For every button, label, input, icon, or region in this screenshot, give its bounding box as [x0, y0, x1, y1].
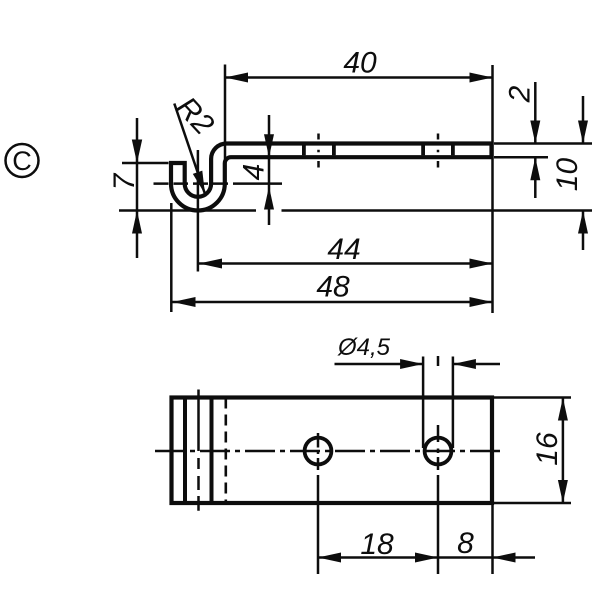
- svg-text:Ø4,5: Ø4,5: [337, 334, 391, 361]
- dimension D4,5: [335, 334, 501, 448]
- radius leader R2: [170, 91, 221, 194]
- svg-text:18: 18: [360, 528, 394, 561]
- hook part cross-section outline (side view): [171, 144, 492, 211]
- svg-text:2: 2: [504, 85, 537, 103]
- hidden edge line (dashed): [225, 398, 228, 504]
- svg-text:4: 4: [238, 164, 271, 181]
- hook bottom tangent / extension line: [119, 209, 256, 212]
- dimension 10: [551, 96, 588, 250]
- svg-text:8: 8: [457, 527, 474, 560]
- bend edge line 1: [183, 398, 187, 504]
- svg-text:7: 7: [108, 172, 141, 190]
- hook center line vertical (bottom view): [197, 390, 200, 511]
- dimension 40: [225, 47, 493, 314]
- dimension 16: [493, 398, 571, 504]
- dimension 48: [173, 271, 493, 308]
- hook arc vertical center line / extension for 44: [197, 150, 200, 272]
- dimension 2: [494, 82, 592, 198]
- bend edge line 2: [210, 398, 214, 504]
- dimension 7: [108, 118, 169, 258]
- hole 1 vertical center line: [317, 433, 320, 574]
- view label C (circled): [6, 144, 39, 177]
- hole 2: [425, 438, 452, 465]
- hole 2 edge ticks in side view: [421, 145, 425, 155]
- svg-text:40: 40: [343, 47, 377, 80]
- svg-text:16: 16: [531, 432, 564, 466]
- dimension 18 and 8: [318, 503, 535, 574]
- svg-text:44: 44: [327, 233, 360, 266]
- hole 2 vertical center line: [437, 356, 440, 574]
- extension line left edge down to 48 dim: [170, 203, 173, 312]
- svg-text:C: C: [12, 146, 32, 176]
- svg-text:48: 48: [316, 271, 350, 304]
- svg-text:10: 10: [551, 158, 584, 192]
- dimension 4: [238, 115, 275, 225]
- hole 1: [305, 438, 332, 465]
- horizontal center line through holes: [155, 450, 505, 453]
- hook arc horizontal center line: [154, 182, 283, 185]
- dimension 44: [199, 233, 493, 269]
- bottom view plate outline: [172, 398, 493, 504]
- hole 1 center line in side view: [317, 134, 320, 168]
- hole 1 edge ticks in side view: [302, 145, 306, 155]
- hole 2 center line in side view: [437, 134, 440, 168]
